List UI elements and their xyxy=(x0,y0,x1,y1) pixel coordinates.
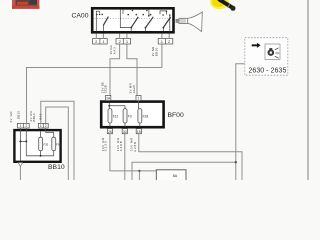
svg-text:AA3: AA3 xyxy=(112,47,116,54)
ground (below BB10) xyxy=(18,163,23,167)
svg-text:F36: F36 xyxy=(56,142,61,146)
wire fuse bottoms to box bottom xyxy=(110,123,140,126)
icon horn pictogram box xyxy=(265,44,280,59)
svg-text:2V GR: 2V GR xyxy=(9,112,13,123)
svg-text:2: 2 xyxy=(45,124,47,128)
wire nested inner (BB10 conn2 pin2 up-right-down) xyxy=(46,107,69,180)
svg-text:BB15: BB15 xyxy=(16,111,20,119)
node dots BB10 xyxy=(19,140,21,142)
wire long horizontal y67.5 from BB10 to CA00 conn3 xyxy=(27,44,162,123)
wire CA00 conn2 pin2 to BF00 pin 1A xyxy=(110,44,120,95)
node junction 210/riser xyxy=(235,161,237,163)
wire BF00 pin26 down-right to bottom box xyxy=(110,134,156,171)
op box BF00 xyxy=(101,102,163,128)
wire far-right vertical xyxy=(307,0,309,180)
op box BB10 xyxy=(14,130,60,162)
pin 26 (BF00 bottom) xyxy=(107,129,112,134)
svg-text:F28: F28 xyxy=(143,114,149,118)
svg-text:30: 30 xyxy=(123,130,127,134)
wire CA00 conn2 pin1 to BF00 pin 1 xyxy=(127,44,137,95)
svg-text:BB10: BB10 xyxy=(48,164,65,171)
svg-text:C230: C230 xyxy=(104,141,108,151)
wire nested outer (BB10 conn2 pin1 up-right-down) xyxy=(41,101,74,180)
connector BB10-2 xyxy=(38,123,48,128)
linkage dashed line xyxy=(95,18,172,20)
svg-text:AA28: AA28 xyxy=(132,85,136,93)
svg-text:1: 1 xyxy=(40,124,42,128)
svg-text:A28B: A28B xyxy=(133,142,137,152)
svg-text:2630 - 2635: 2630 - 2635 xyxy=(249,67,287,74)
fuse F36 xyxy=(52,137,56,151)
pin 19 (BF00 bottom) xyxy=(136,129,141,134)
pin 1 (BF00 top) xyxy=(136,95,141,100)
horn icon xyxy=(176,12,202,32)
wire drop from horizontal y170.9 xyxy=(138,171,140,180)
svg-text:BA2: BA2 xyxy=(38,113,42,120)
svg-text:F12: F12 xyxy=(113,114,119,118)
switch S2 with rail xyxy=(120,9,149,31)
battery icon (red, cut off at top-left) xyxy=(12,0,39,9)
svg-text:1: 1 xyxy=(138,97,140,101)
fuse F28 xyxy=(138,101,140,109)
connector CA00-1 xyxy=(93,34,108,45)
svg-text:26: 26 xyxy=(108,130,112,134)
switch S3 xyxy=(146,17,154,32)
arrow glyph xyxy=(252,43,261,48)
fuse F12 xyxy=(108,103,110,109)
svg-text:F3: F3 xyxy=(128,114,132,118)
svg-text:CC2B: CC2B xyxy=(104,85,108,93)
fuse F3 xyxy=(124,106,126,109)
node junction on y170.9 xyxy=(138,170,140,172)
pin 30 (BF00 bottom) xyxy=(122,129,127,134)
BB10 internal wiring xyxy=(20,128,53,161)
svg-text:BF00: BF00 xyxy=(168,112,184,119)
connector CA00-2 xyxy=(116,34,131,45)
svg-text:1A: 1A xyxy=(106,97,111,101)
wire bottom-edge riser joining 210 wire xyxy=(132,162,236,180)
wire BF00 pin19 right and down xyxy=(139,134,242,180)
renvoi dashed box 2630-2635 xyxy=(245,38,288,75)
wire 210 horizontal+vertical (dashed-box feed) xyxy=(236,64,257,180)
connector CA00-3 xyxy=(158,34,173,45)
svg-text:F35: F35 xyxy=(43,142,48,146)
switch S4 xyxy=(160,11,171,32)
bottom partial box xyxy=(156,170,186,182)
svg-text:2: 2 xyxy=(25,124,27,128)
wire ground to bottom xyxy=(19,167,21,180)
svg-text:1: 1 xyxy=(19,124,21,128)
pin 1A (BF00 top) xyxy=(106,95,111,100)
svg-text:BB13: BB13 xyxy=(32,113,36,121)
connector BB10-1 xyxy=(17,123,29,128)
svg-text:19: 19 xyxy=(137,130,141,134)
switch S1 xyxy=(96,11,108,31)
svg-text:BB10: BB10 xyxy=(155,47,159,56)
svg-text:CA00: CA00 xyxy=(71,12,88,19)
key icon (yellow glow + black key) xyxy=(210,0,229,9)
svg-text:A30B: A30B xyxy=(119,141,123,151)
svg-text:8A: 8A xyxy=(173,174,178,178)
wire BF00 pin30 to bottom edge xyxy=(124,134,126,180)
fuse F35 xyxy=(39,137,43,151)
op box CA00 xyxy=(92,8,173,32)
